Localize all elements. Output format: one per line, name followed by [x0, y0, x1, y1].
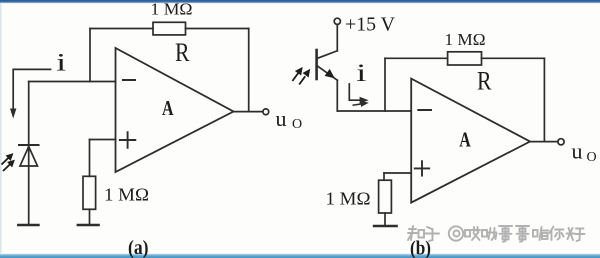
svg-text:+15 V: +15 V [345, 14, 395, 35]
svg-text:(b): (b) [410, 239, 431, 258]
wire: below resistor to ground (a) [89, 209, 91, 225]
resistor 1 MΩ vertical, circuit b [379, 180, 392, 213]
current arrowhead (a): points down [10, 109, 16, 119]
watermark 知乎 @哎呦哥哥嗨你好 (drawn strokes) [408, 226, 585, 242]
wire: below resistor to ground (b) [384, 213, 386, 226]
svg-text:O: O [292, 117, 302, 132]
photodiode D: triangle [20, 147, 38, 167]
wire: feedback top right segment (b) [482, 57, 545, 59]
svg-text:1 MΩ: 1 MΩ [445, 30, 486, 49]
output terminal circle (b) [558, 139, 564, 145]
wire: output of op-amp (a) [234, 111, 263, 113]
op-amp A (b): triangle body [411, 79, 530, 203]
supply terminal circle +15V [334, 18, 340, 24]
output terminal circle (a) [263, 109, 269, 115]
wire: non-inverting input horizontal (a) [90, 139, 116, 141]
resistor R (1 MΩ) feedback, circuit a [153, 22, 186, 35]
wire: inverting input horizontal [29, 81, 116, 83]
wire: photodiode branch vertical [28, 82, 30, 226]
current arrowhead i (b): points right [360, 97, 369, 104]
phototransistor T: emitter lead [317, 65, 338, 80]
top blue border line [0, 0, 600, 3]
phototransistor T: base bar [315, 50, 318, 79]
wire: output of op-amp (b) [530, 141, 558, 143]
wire: non-inverting input vertical down to resistor (a) [89, 140, 91, 177]
svg-text:A: A [162, 96, 174, 120]
wire: inverting input horizontal (b) [337, 110, 411, 112]
svg-text:(a): (a) [128, 238, 149, 258]
light arrow 2 into phototransistor (b) [299, 71, 309, 85]
svg-text:1 MΩ: 1 MΩ [151, 0, 193, 19]
svg-text:A: A [459, 128, 471, 152]
phototransistor emitter arrowhead (b) [325, 69, 335, 79]
bottom blue border line [0, 254, 600, 258]
op-amp A (a): triangle body [116, 48, 234, 172]
char 知 [408, 226, 424, 240]
phototransistor T: collector lead [317, 51, 338, 59]
wire: feedback top left segment (b) [385, 57, 448, 59]
char 好 [567, 228, 585, 241]
char 呦 [482, 228, 497, 240]
char 你 [550, 227, 564, 241]
wire: emitter vertical down to inverting wire (b) [336, 80, 338, 111]
resistor 1 MΩ vertical, circuit a [83, 176, 96, 209]
ground bar: photodiode branch [18, 224, 38, 226]
wire: non-inverting vertical to resistor (b) [383, 173, 385, 180]
op-amp A (a): plus symbol [120, 132, 136, 148]
ground bar: resistor branch (b) [374, 225, 397, 227]
op-amp A (b): plus symbol [415, 161, 429, 175]
wire: feedback right vertical down to output node [248, 29, 250, 112]
current arrow i (b): small second dash [353, 104, 364, 106]
wire: feedback right vertical (b) [543, 58, 545, 141]
photodiode D: cathode bar [19, 144, 39, 146]
left faint edge line [0, 3, 2, 253]
char 嗨 [533, 227, 549, 240]
char 哥 (1) [499, 226, 512, 242]
wire: feedback left vertical down to inverting input [89, 29, 91, 82]
ground bar: resistor branch (a) [78, 224, 99, 226]
svg-text:u: u [572, 138, 583, 163]
resistor R (1 MΩ) feedback, circuit b [448, 52, 482, 65]
light arrow 1 into phototransistor (b) [292, 69, 301, 82]
wire: non-inverting input horizontal (b) [384, 172, 411, 174]
op-amp A (a): minus symbol [123, 79, 135, 81]
wire: feedback top, left segment [90, 28, 153, 30]
svg-text:1 MΩ: 1 MΩ [326, 189, 371, 209]
svg-text:u: u [276, 106, 287, 131]
svg-text:i: i [56, 48, 66, 76]
light arrow 2 into photodiode (a) [3, 161, 14, 171]
svg-text:R: R [477, 66, 492, 95]
char 哎 [465, 227, 480, 240]
char 乎 [425, 227, 439, 241]
current arrow i (a): bent annotation line [13, 69, 50, 111]
wire: feedback left vertical (b) [384, 58, 386, 111]
current arrow i (b): bent annotation line [349, 84, 362, 100]
wire: feedback top, right segment [186, 28, 249, 30]
char 哥 (2) [516, 226, 529, 242]
svg-text:R: R [175, 38, 190, 67]
svg-text:O: O [587, 150, 597, 165]
char @ [449, 226, 463, 240]
op-amp A (b): minus symbol [418, 109, 431, 111]
light arrow 1 into photodiode (a) [2, 155, 13, 165]
svg-text:1 MΩ: 1 MΩ [104, 184, 149, 204]
wire: +15V supply down to collector [336, 25, 338, 51]
svg-text:i: i [356, 59, 366, 87]
